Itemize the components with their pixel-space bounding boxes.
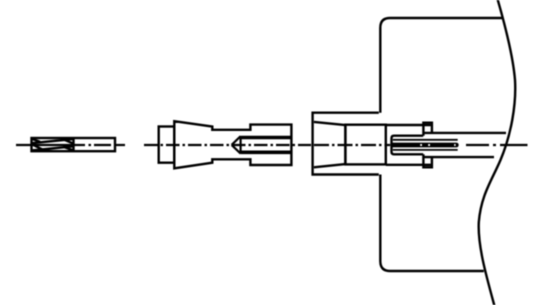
collet slot bar [393,143,457,148]
spindle bore section rectangle [345,125,385,165]
spindle bore front edge [344,125,346,165]
spindle taper mouth top [314,122,346,125]
socket bore cone point [232,136,241,153]
retaining flange bottom [423,154,432,167]
slot bar centerline dots (white) [420,144,455,146]
centerline left segment (through drill) [16,144,125,146]
break line (wavy edge) [479,0,516,305]
centerline through sleeve (middle piece) [144,144,311,146]
spindle taper mouth bottom [314,164,346,167]
twist drill body [32,138,116,151]
sleeve outer profile (taper cone, neck, socket block) [174,121,291,168]
centerline right segment [466,144,528,146]
headstock body lower outline [380,175,484,272]
drawbar shank bottom line [423,156,494,158]
collet body outline [392,136,424,155]
socket bore bottom wall (thick) [241,151,292,155]
drill flute/shank divider [72,138,74,151]
collet inner tube bottom line [393,149,458,151]
retaining flange top [423,123,432,136]
socket bore top wall (thick) [241,136,292,140]
drill flutes [32,139,74,151]
drawbar shank top line [423,132,506,134]
sleeve bore lines into housing [386,124,431,126]
spindle nose outer profile [313,113,379,175]
sleeve rear flange [159,127,175,163]
collet inner tube top line [393,139,458,141]
headstock body upper outline [380,18,503,113]
centerline through spindle [314,144,390,146]
